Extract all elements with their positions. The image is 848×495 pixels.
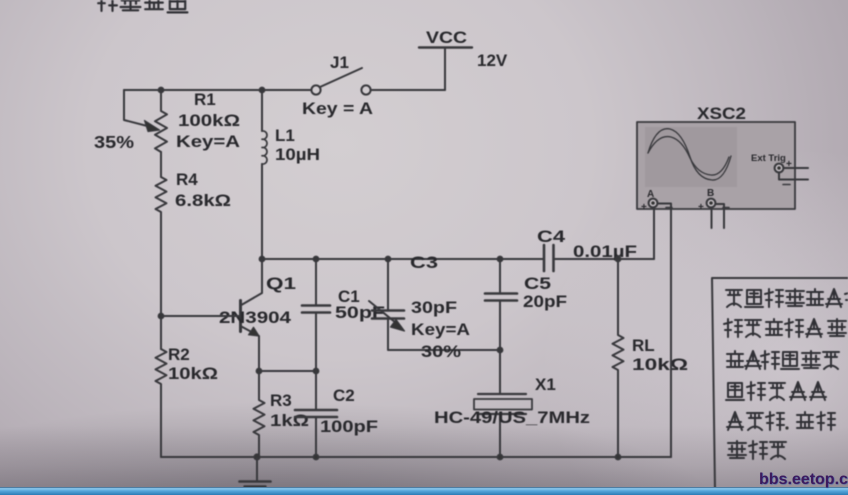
svg-text:10kΩ: 10kΩ <box>168 364 218 383</box>
svg-text:+: + <box>641 202 647 213</box>
power VCC <box>419 28 508 90</box>
terminal A <box>641 189 672 213</box>
svg-text:Q1: Q1 <box>266 274 296 293</box>
svg-text:C3: C3 <box>410 253 438 272</box>
node X1 top junction <box>498 348 503 353</box>
svg-text:R2: R2 <box>168 345 190 364</box>
wire left drop to wiper <box>124 90 155 128</box>
node X1 bottom <box>498 455 503 460</box>
wire base <box>161 315 240 317</box>
node emitter junction <box>257 369 262 374</box>
svg-text:35%: 35% <box>94 132 134 152</box>
svg-text:C4: C4 <box>537 227 566 246</box>
wire scope A- to bottom rail <box>658 204 672 458</box>
svg-text:20pF: 20pF <box>523 292 567 311</box>
annotation text line 2 频率和幅度... <box>724 319 846 337</box>
resistor R2 <box>156 345 219 385</box>
svg-text:Ext Trig: Ext Trig <box>751 153 786 164</box>
oscilloscope XSC2 <box>637 104 795 209</box>
wire bottom rail <box>161 456 671 458</box>
svg-text:C2: C2 <box>333 386 355 405</box>
svg-text:10µH: 10µH <box>275 145 320 164</box>
svg-text:Key=A: Key=A <box>411 320 470 339</box>
capacitor C5 <box>485 259 567 350</box>
svg-text:12V: 12V <box>477 51 508 70</box>
node R1 top <box>159 88 164 93</box>
resistor R4 <box>156 170 232 213</box>
node base tap <box>159 314 164 319</box>
wire R1 to R4 <box>160 152 162 177</box>
title 仿真电路 (bottom-clipped) <box>97 0 187 12</box>
transistor Q1 <box>219 259 296 371</box>
node C5 top <box>498 257 503 262</box>
svg-text:10kΩ: 10kΩ <box>632 355 688 374</box>
svg-text:Key = A: Key = A <box>302 99 373 118</box>
svg-text:+: + <box>698 202 704 213</box>
capacitor C4 <box>537 227 637 271</box>
svg-text:R1: R1 <box>194 90 216 109</box>
resistor RL <box>613 259 689 457</box>
svg-text:R3: R3 <box>270 391 292 410</box>
node collector rail <box>260 257 265 262</box>
wire top rail <box>124 89 445 91</box>
svg-text:30pF: 30pF <box>411 298 457 317</box>
switch J1 <box>302 53 373 118</box>
svg-text:0.01µF: 0.01µF <box>573 242 637 261</box>
svg-text:1kΩ: 1kΩ <box>270 411 309 430</box>
node ground junction <box>254 454 259 459</box>
potentiometer R1 <box>94 90 240 152</box>
annotation box border <box>712 278 848 490</box>
terminal B <box>698 188 729 213</box>
wire R2 to bottom rail <box>160 385 162 457</box>
svg-text:X1: X1 <box>535 375 556 394</box>
annotation text line 4 是幅度大小 <box>726 382 826 400</box>
svg-text:XSC2: XSC2 <box>697 104 746 123</box>
svg-text:R4: R4 <box>176 170 198 189</box>
annotation text line 6 下改进 <box>728 441 786 459</box>
annotation text line 3 到了课题要求 <box>727 351 839 369</box>
crystal X1 <box>434 350 590 457</box>
node RL top <box>616 257 621 262</box>
wire scope A+ to C4 <box>653 208 655 260</box>
svg-text:VCC: VCC <box>426 28 467 47</box>
wire scope B+ stub <box>711 208 713 229</box>
node 30pF top <box>386 257 391 262</box>
node L1 top <box>260 88 265 93</box>
svg-text:J1: J1 <box>330 53 349 72</box>
svg-text:L1: L1 <box>275 126 295 145</box>
watermark bbs.eetop.cn <box>759 471 848 489</box>
node RL bottom <box>616 455 621 460</box>
svg-text:6.8kΩ: 6.8kΩ <box>175 191 231 210</box>
svg-text:B: B <box>707 188 714 199</box>
terminal Ext Trig <box>775 159 808 185</box>
svg-text:HC-49/US_7MHz: HC-49/US_7MHz <box>434 408 590 427</box>
svg-text:30%: 30% <box>421 342 461 361</box>
svg-text:Key=A: Key=A <box>176 132 240 151</box>
net label C3 <box>410 253 438 272</box>
svg-text:100kΩ: 100kΩ <box>178 111 240 130</box>
node C1 bottom junction <box>314 369 319 374</box>
potentiometer R1 wiper arrow <box>145 121 160 132</box>
resistor R3 <box>254 371 310 457</box>
svg-text:2N3904: 2N3904 <box>219 308 292 327</box>
annotation text line 1 输出稳定正弦... <box>726 289 848 307</box>
bottom blue bar <box>0 487 848 495</box>
node C2 bottom <box>314 455 319 460</box>
ground <box>240 457 271 491</box>
wire R4 to R2 <box>160 213 162 349</box>
node C1 top <box>314 257 319 262</box>
capacitor C1 <box>302 259 385 371</box>
capacitor C2 <box>295 371 378 457</box>
svg-text:C5: C5 <box>524 274 551 293</box>
svg-text:100pF: 100pF <box>320 417 378 436</box>
wire collector rail <box>262 258 654 260</box>
svg-text:RL: RL <box>632 336 655 355</box>
inductor L1 <box>262 90 320 259</box>
wire scope B- stub <box>716 204 725 228</box>
wire emitter to C1 column <box>259 370 316 372</box>
variable capacitor 30pF <box>369 259 500 361</box>
annotation text line 5 不方便，故作 <box>727 412 835 430</box>
